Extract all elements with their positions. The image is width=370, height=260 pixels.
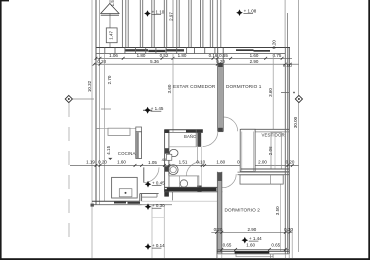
svg-text:0.20: 0.20 bbox=[272, 40, 277, 49]
svg-text:+ 0.45: + 0.45 bbox=[152, 181, 165, 186]
svg-text:1.51: 1.51 bbox=[179, 160, 188, 165]
svg-text:1.80: 1.80 bbox=[216, 160, 225, 165]
svg-text:COCINA: COCINA bbox=[118, 151, 136, 156]
svg-text:3.60: 3.60 bbox=[167, 84, 172, 93]
svg-text:1.19: 1.19 bbox=[86, 160, 95, 165]
svg-text:1.52: 1.52 bbox=[110, 0, 115, 6]
svg-text:DORMITORIO 2: DORMITORIO 2 bbox=[225, 208, 261, 213]
svg-text:4.15: 4.15 bbox=[106, 145, 111, 154]
svg-text:0.20: 0.20 bbox=[286, 160, 295, 165]
svg-text:+ 1.44: + 1.44 bbox=[249, 236, 262, 241]
svg-text:+ 0.30: + 0.30 bbox=[152, 203, 165, 208]
svg-text:2.90: 2.90 bbox=[250, 59, 259, 64]
svg-text:1.47: 1.47 bbox=[109, 30, 114, 39]
svg-text:0.52: 0.52 bbox=[160, 53, 169, 58]
svg-text:0.30: 0.30 bbox=[284, 227, 293, 232]
svg-text:3.60: 3.60 bbox=[268, 88, 273, 97]
svg-text:BAÑO: BAÑO bbox=[184, 134, 197, 139]
svg-text:ESTAR COMEDOR: ESTAR COMEDOR bbox=[173, 84, 216, 89]
svg-text:+ 1.08: + 1.08 bbox=[244, 9, 257, 14]
svg-text:2.00: 2.00 bbox=[258, 160, 267, 165]
svg-text:0.20: 0.20 bbox=[98, 160, 107, 165]
svg-text:0.00: 0.00 bbox=[283, 63, 292, 68]
svg-text:0.65: 0.65 bbox=[223, 243, 232, 248]
svg-text:2.70: 2.70 bbox=[107, 75, 112, 84]
svg-text:1.05: 1.05 bbox=[148, 160, 157, 165]
svg-text:0.16: 0.16 bbox=[209, 53, 218, 58]
svg-text:0.65: 0.65 bbox=[219, 53, 228, 58]
svg-text:3.50: 3.50 bbox=[275, 206, 280, 215]
svg-text:+ 0.14: + 0.14 bbox=[152, 243, 165, 248]
svg-text:1.60: 1.60 bbox=[117, 160, 126, 165]
svg-text:0.75: 0.75 bbox=[273, 53, 282, 58]
svg-text:0.20: 0.20 bbox=[97, 59, 106, 64]
svg-text:2.90: 2.90 bbox=[248, 227, 257, 232]
svg-text:10.32: 10.32 bbox=[87, 80, 92, 92]
svg-text:0.20: 0.20 bbox=[214, 227, 223, 232]
svg-text:0.65: 0.65 bbox=[271, 243, 280, 248]
svg-text:.64: .64 bbox=[161, 158, 166, 162]
svg-text:1.80: 1.80 bbox=[137, 53, 146, 58]
svg-text:+ 1.45: + 1.45 bbox=[151, 106, 164, 111]
svg-text:1.80: 1.80 bbox=[178, 53, 187, 58]
svg-text:1.60: 1.60 bbox=[246, 243, 255, 248]
svg-text:1.60: 1.60 bbox=[250, 53, 259, 58]
svg-text:DORMITORIO 1: DORMITORIO 1 bbox=[226, 84, 262, 89]
svg-text:+ 1.10: + 1.10 bbox=[152, 9, 165, 14]
svg-text:1.06: 1.06 bbox=[109, 53, 118, 58]
svg-text:5.36: 5.36 bbox=[150, 59, 159, 64]
svg-text:0.10: 0.10 bbox=[196, 160, 205, 165]
svg-text:2.97: 2.97 bbox=[168, 12, 173, 21]
svg-text:30.00: 30.00 bbox=[293, 116, 298, 128]
